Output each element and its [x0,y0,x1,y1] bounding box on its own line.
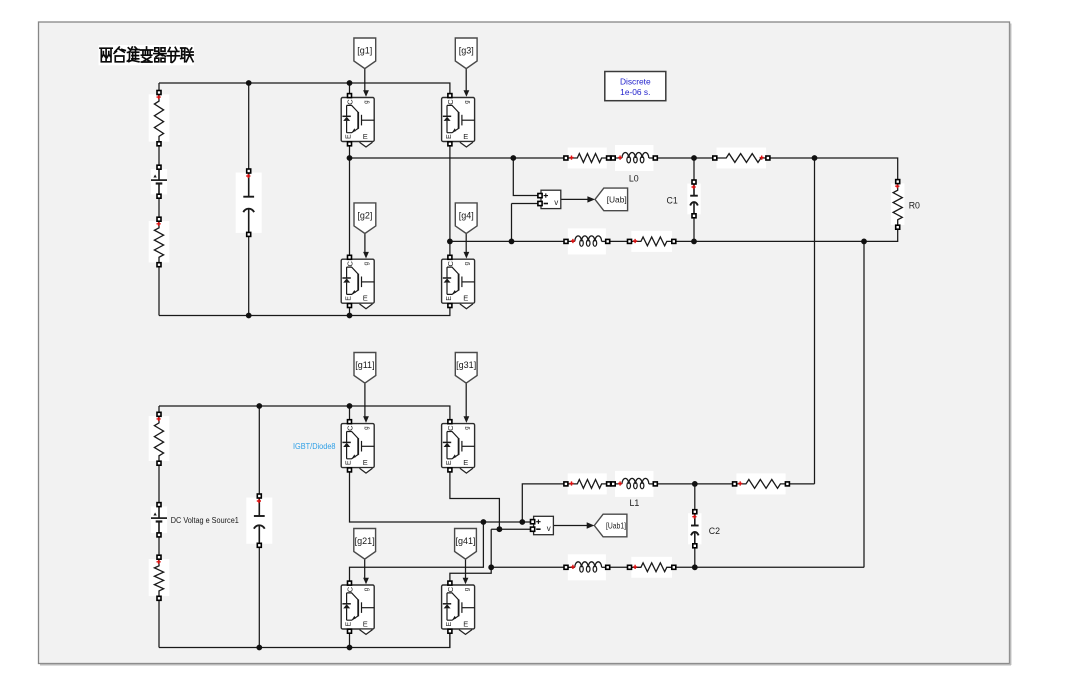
wire dc-link capacitor branch (top circuit) [248,83,250,171]
arrow to Uab [587,196,595,202]
wire line1 to g21 collector [350,522,484,583]
From tag [g41] [455,529,477,560]
IGBT/Diode g31 [442,424,475,468]
svg-text:[Uab]: [Uab] [607,195,627,205]
wire g2 emitter stub [349,305,351,315]
svg-text:R0: R0 [909,200,920,210]
IGBT/Diode g3 [442,98,475,142]
svg-text:E: E [446,134,453,139]
Goto tag [Uab1] [594,514,627,537]
svg-text:g: g [464,262,470,265]
svg-text:E: E [363,132,368,141]
dc-link capacitor (bottom) [246,494,272,547]
wire phase A line [350,157,566,159]
svg-text:E: E [446,622,453,627]
svg-text:[g1]: [g1] [357,46,372,56]
wire g1-g2 midpoint (phase A leg) [349,144,351,257]
wire phase A to R0 [768,158,898,182]
svg-text:L1: L1 [630,498,640,508]
IGBT/Diode g21 [341,585,374,629]
junction phase A leg [347,155,353,161]
junction top rail / cap [246,80,252,86]
svg-text:L0: L0 [629,174,639,184]
g41 ports [448,581,452,585]
wire C1 branch [693,158,695,182]
wire phase B output to feeder B [674,566,864,568]
From tag [g2] [354,203,376,234]
svg-text:DC Voltag e Source1: DC Voltag e Source1 [171,515,239,525]
IGBT/Diode g41 [442,585,475,629]
series R phase A (top) [564,148,611,169]
junction top rail2 / g11 [347,403,353,409]
g2 ports [348,255,352,259]
load resistor R0 [891,180,904,230]
capacitor C1 [687,180,700,218]
wire gate g4 [465,234,467,252]
series R phase A output (top) [713,148,770,169]
svg-text:C2: C2 [709,526,720,536]
svg-text:IGBT/Diode8: IGBT/Diode8 [293,441,336,451]
wire bottom rail (top circuit) [159,305,450,315]
IGBT/Diode g1 [341,98,374,142]
junction bottom rail / g2 [347,313,353,319]
Discrete solver block [605,72,666,101]
svg-text:[g21]: [g21] [355,536,375,546]
junction phase A / C1 [691,155,697,161]
g4 ports [448,255,452,259]
From tag [g11] [354,353,376,384]
wire gate g41 [465,559,467,578]
wire gate g21 [364,559,366,578]
junction bottom rail2 / g21 [347,645,353,651]
svg-text:g: g [364,262,370,265]
From tag [g21] [354,529,376,560]
junction line2 / g31 [497,526,503,532]
wire g3-g4 midpoint (phase B leg) [449,144,451,257]
wire gate g2 [364,234,366,252]
wire dc-link capacitor branch (bottom circuit) [258,406,260,496]
resistor series R (bottom source lower) [149,555,170,600]
voltage measurement V0 [538,190,561,208]
svg-text:v: v [554,198,558,207]
svg-text:g: g [364,426,370,429]
svg-text:E: E [346,460,353,465]
svg-text:g: g [364,100,370,103]
wire gate g3 [465,69,467,91]
svg-text:E: E [346,134,353,139]
junction bottom rail2 / cap [256,645,262,651]
svg-text:g: g [464,426,470,429]
svg-text:E: E [363,294,368,303]
g3 ports [448,94,452,98]
svg-text:g: g [364,588,370,591]
wire g31 emitter to line2 [450,470,500,529]
svg-text:C1: C1 [667,195,678,205]
g31 ports [448,420,452,424]
svg-text:[g3]: [g3] [459,46,474,56]
svg-text:C: C [446,425,455,431]
wire line2 (V1 minus) [491,528,530,530]
junction line1 / riser D [481,519,487,525]
series R phase B (top) [628,231,676,252]
junction line1 / output riser [519,519,525,525]
svg-text:[g2]: [g2] [357,210,372,220]
svg-text:[g11]: [g11] [355,360,374,370]
svg-text:E: E [463,458,468,467]
svg-text:E: E [446,296,453,301]
svg-text:E: E [346,622,353,627]
wire parallel feeder B (long vertical) [863,241,865,567]
series L phase A L1 [611,471,657,497]
wire g1 collector stub [349,83,351,94]
wire phase B output between L and R (bottom) [608,566,630,568]
wire phase B riser / g41 collector [450,529,491,583]
resistor series R (top source upper) [149,91,170,146]
svg-text:C: C [446,261,455,267]
g21 ports [348,581,352,585]
series L phase B (bottom) [564,554,610,580]
svg-text:1e-06 s.: 1e-06 s. [620,87,650,97]
resistor series R (bottom source upper) [149,412,170,465]
dc-link capacitor (top) [236,169,262,236]
wire gate g11 [364,383,366,416]
IGBT/Diode g11 [341,424,374,468]
svg-text:[Uab1]: [Uab1] [606,521,626,531]
wire g11 collector stub [349,406,351,420]
svg-text:E: E [463,619,468,628]
resistor series R (top source lower) [149,217,170,267]
series R phase A output (bottom) [733,473,790,494]
wire gate g31 [465,383,467,416]
capacitor C2 [688,510,701,548]
wire phase B to R0 bottom [674,227,898,241]
svg-text:E: E [346,296,353,301]
junction phase B leg [447,239,453,245]
wire top rail (top circuit) [159,83,450,94]
svg-text:E: E [363,458,368,467]
wire parallel feeder A (long vertical) [814,158,816,484]
wire phase A output mid segment (bottom) [655,483,734,485]
wire phase A output riser (bottom) [522,484,566,522]
wire voltage tap + (top) [513,158,540,196]
wire g21 emitter stub [349,631,351,647]
svg-text:[g41]: [g41] [455,536,475,546]
wire phase B output (bottom) [491,566,566,568]
junction bottom rail / cap [246,313,252,319]
wire V0 output [561,198,589,200]
svg-text:E: E [463,132,468,141]
svg-text:[g4]: [g4] [459,210,474,220]
title annotation 两台逆变器并联 [99,45,195,65]
g11 ports [348,420,352,424]
junction phase A / feeder A [812,155,818,161]
From tag [g1] [354,38,376,69]
svg-text:C: C [346,261,355,267]
series R phase A (bottom) [564,473,611,494]
junction phase A / V+ tap [510,155,516,161]
wire phase B between L and R [608,240,630,242]
junction phase A out / C2 [692,481,698,487]
junction phase B out / C2 [692,564,698,570]
g1 ports [348,94,352,98]
wire C2 branch [694,484,696,512]
voltage measurement V1 [531,516,554,534]
svg-text:E: E [463,294,468,303]
svg-text:C: C [346,425,355,431]
Goto tag [Uab] [595,188,628,211]
junction phase B / C1 [691,239,697,245]
arrow to Uab1 [587,522,595,528]
series L phase A L0 [611,145,657,171]
From tag [g4] [455,203,477,234]
wire left branch segments (bottom circuit) [158,406,160,414]
series R phase B (bottom) [628,557,676,578]
wire left branch segments (top circuit) [158,83,160,93]
wire phase B line [450,240,566,242]
svg-text:g: g [464,100,470,103]
junction top rail2 / cap [256,403,262,409]
junction top rail / g1 [347,80,353,86]
svg-text:v: v [547,524,551,533]
wire V1 output [553,525,588,527]
From tag [g3] [455,38,477,69]
svg-text:E: E [363,619,368,628]
series L phase B (top) [564,228,610,254]
DC voltage source1 [151,503,167,537]
svg-text:C: C [446,99,455,105]
IGBT/Diode g2 [341,259,374,303]
svg-text:E: E [446,460,453,465]
IGBT/Diode g4 [442,259,475,303]
DC voltage source (top) [151,165,167,198]
wire bottom rail (bottom circuit) [159,631,450,647]
junction phase B / V- tap [509,239,515,245]
wire phase A between R and node [655,157,715,159]
wire g11 emitter to line1 [350,470,531,522]
svg-text:C: C [446,586,455,592]
svg-text:[g31]: [g31] [456,360,476,370]
junction phase B / feeder B [861,239,867,245]
svg-text:Discrete: Discrete [620,77,651,87]
wire g41 emitter stub [449,631,451,647]
svg-text:C: C [346,99,355,105]
From tag [g31] [455,353,477,384]
wire phase A output to feeder A [787,483,814,485]
wire gate g1 [364,69,366,91]
wire top rail (bottom circuit) [159,406,450,420]
svg-text:g: g [464,588,470,591]
svg-text:C: C [346,586,355,592]
wire voltage tap - (top) [511,204,513,242]
junction phase B riser / output [488,564,494,570]
